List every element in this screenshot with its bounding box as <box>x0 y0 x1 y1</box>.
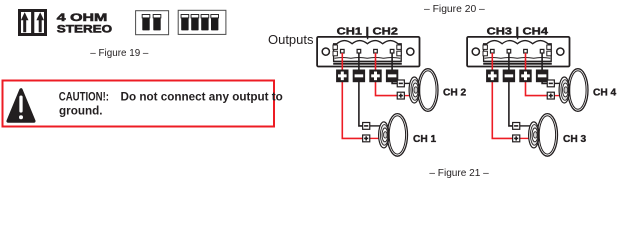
wire CH2- (black) <box>392 53 397 83</box>
terminal block J2 (CH3/CH4 outputs) <box>467 37 569 67</box>
wire stub CH4+ to speaker <box>554 95 563 97</box>
wire stub CH2- to speaker <box>404 82 413 84</box>
speaker terminal + (CH4) <box>547 92 554 99</box>
polarity marker - (CH4) <box>536 70 548 83</box>
4-ohm stereo mode icon <box>20 9 46 36</box>
polarity marker + (CH4) <box>519 70 531 83</box>
wire CH2+ (red) <box>376 53 398 96</box>
svg-text:– Figure 21 –: – Figure 21 – <box>429 167 489 179</box>
svg-text:CH 3: CH 3 <box>563 134 587 145</box>
wire stub CH3- to speaker <box>520 125 532 127</box>
svg-text:CH 4: CH 4 <box>593 88 617 99</box>
wire CH3- (black) <box>509 53 513 126</box>
wire stub CH3+ to speaker <box>520 137 532 139</box>
wire stub CH1- to speaker <box>370 125 382 127</box>
svg-text:CH 1: CH 1 <box>413 134 437 145</box>
wire CH4+ (red) <box>526 53 548 96</box>
polarity marker - (CH3) <box>503 70 515 83</box>
svg-text:Outputs: Outputs <box>268 32 314 47</box>
speaker CH4 <box>559 69 588 112</box>
wire CH4- (black) <box>542 53 547 83</box>
wire CH3+ (red) <box>492 53 512 138</box>
speaker terminal + (CH3) <box>513 135 520 142</box>
caution box <box>3 81 275 127</box>
wire stub CH1+ to speaker <box>370 137 382 139</box>
speaker terminal - (CH1) <box>363 123 370 130</box>
DIP switch block S2 (4 switches) <box>178 10 226 34</box>
svg-text:Do not connect any output to: Do not connect any output to <box>121 90 283 103</box>
speaker CH2 <box>409 69 438 112</box>
polarity marker + (CH1) <box>336 70 348 83</box>
polarity marker + (CH2) <box>369 70 381 83</box>
svg-text:– Figure 20 –: – Figure 20 – <box>424 3 485 15</box>
wire CH1+ (red) <box>342 53 362 138</box>
svg-text:CAUTION!:: CAUTION!: <box>59 90 109 103</box>
svg-text:ground.: ground. <box>59 104 103 117</box>
DIP switch block S1 (2 switches) <box>136 11 169 35</box>
terminal block J1 (CH1/CH2 outputs) <box>317 37 419 67</box>
wire stub CH4- to speaker <box>554 82 563 84</box>
svg-text:STEREO: STEREO <box>57 24 112 36</box>
warning triangle <box>8 90 34 121</box>
polarity marker - (CH1) <box>353 70 365 83</box>
wire stub CH2+ to speaker <box>404 95 413 97</box>
speaker CH1 <box>379 114 408 157</box>
speaker terminal - (CH2) <box>397 80 404 87</box>
svg-text:CH 2: CH 2 <box>443 88 467 99</box>
polarity marker + (CH3) <box>486 70 498 83</box>
svg-text:– Figure 19 –: – Figure 19 – <box>90 47 148 59</box>
svg-text:4 OHM: 4 OHM <box>57 12 108 24</box>
polarity marker - (CH2) <box>386 70 398 83</box>
speaker CH3 <box>529 114 558 157</box>
speaker terminal + (CH2) <box>397 92 404 99</box>
speaker terminal - (CH3) <box>513 123 520 130</box>
speaker terminal + (CH1) <box>363 135 370 142</box>
speaker terminal - (CH4) <box>547 80 554 87</box>
wire CH1- (black) <box>359 53 363 126</box>
